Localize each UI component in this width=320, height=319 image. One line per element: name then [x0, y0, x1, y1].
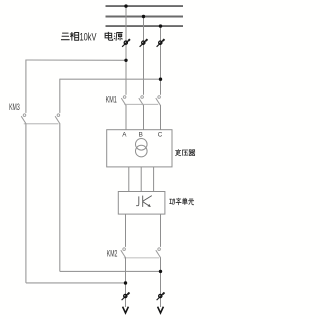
IGBT symbol: emitter with arrow	[143, 202, 151, 207]
label: transformer (bian ya qi)	[175, 149, 195, 155]
wire phase C to transformer	[160, 105, 162, 129]
node: bypass tap on phase A	[124, 59, 127, 62]
wire output 2 lower	[160, 258, 162, 308]
IGBT symbol: channel bar	[142, 196, 144, 207]
fuse FU1 phase A	[122, 39, 130, 47]
node: bypass join on output 2	[159, 270, 162, 273]
svg-text:A: A	[122, 132, 127, 139]
transformer T1 winding 2	[136, 145, 148, 157]
wire bypass left 1 lower	[25, 124, 27, 283]
wire secondary 2	[140, 167, 142, 192]
wire output 2 upper	[160, 214, 162, 247]
wire bypass bottom 1 horizontal	[26, 282, 126, 284]
contactor KM3 pole 2	[55, 114, 60, 124]
contactor KM1 pole 3	[156, 96, 161, 106]
svg-text:KM2: KM2	[107, 249, 118, 259]
fuse FU4 output 1	[122, 293, 130, 301]
contactor KM2 pole 2	[156, 248, 161, 258]
node: tap B on bus L2	[142, 15, 145, 18]
wire phase A to transformer	[125, 105, 127, 129]
bus L1	[106, 5, 184, 7]
transformer box	[107, 130, 172, 167]
wire output 1 lower	[125, 258, 127, 308]
node: bypass join on output 1	[124, 281, 127, 284]
node: bypass tap on phase C	[159, 78, 162, 81]
KM2 linkage	[124, 257, 160, 259]
label: three-phase 10kV supply	[61, 32, 123, 44]
wire phase C upper	[160, 26, 162, 95]
svg-text:KM3: KM3	[9, 102, 20, 112]
wire secondary 3	[153, 167, 155, 192]
KM3 linkage	[24, 123, 59, 125]
IGBT symbol: collector	[143, 196, 152, 202]
wire bypass left 2 upper	[59, 79, 61, 113]
wire phase A upper	[125, 6, 127, 95]
fuse FU5 output 2	[157, 293, 165, 301]
wire bypass left 2 lower	[59, 124, 61, 272]
contactor KM3 pole 1	[21, 114, 26, 124]
arrow output 1	[123, 307, 129, 313]
transformer T1 winding 1	[136, 139, 148, 151]
wire bypass tap A horizontal	[26, 59, 126, 61]
wire bypass tap C horizontal	[60, 78, 161, 80]
node: tap A on bus L1	[124, 4, 127, 7]
IGBT symbol: gate lead	[136, 196, 139, 205]
power unit box	[118, 192, 165, 215]
svg-text:KM1: KM1	[106, 94, 117, 104]
fuse FU2 phase B	[140, 39, 148, 47]
svg-text:10kV: 10kV	[80, 32, 97, 44]
arrow output 2	[158, 307, 164, 313]
contactor KM1 pole 2	[139, 96, 144, 106]
svg-text:C: C	[158, 132, 163, 139]
bus L3	[106, 25, 184, 27]
node: tap C on bus L3	[159, 24, 162, 27]
contactor KM2 pole 1	[121, 248, 126, 258]
svg-text:B: B	[139, 132, 143, 139]
wire phase B to transformer	[143, 105, 145, 129]
fuse FU3 phase C	[157, 39, 165, 47]
wire phase B upper	[143, 17, 145, 95]
wire output 1 upper	[125, 214, 127, 247]
label: power unit (gong lv dan yuan)	[169, 198, 194, 205]
KM1 linkage	[124, 103, 158, 105]
bus L2	[106, 16, 184, 18]
contactor KM1 pole 1	[121, 96, 126, 106]
wire bypass left 1 upper	[25, 60, 27, 113]
wire bypass bottom 2 horizontal	[60, 270, 161, 272]
wire secondary 1	[128, 167, 130, 192]
